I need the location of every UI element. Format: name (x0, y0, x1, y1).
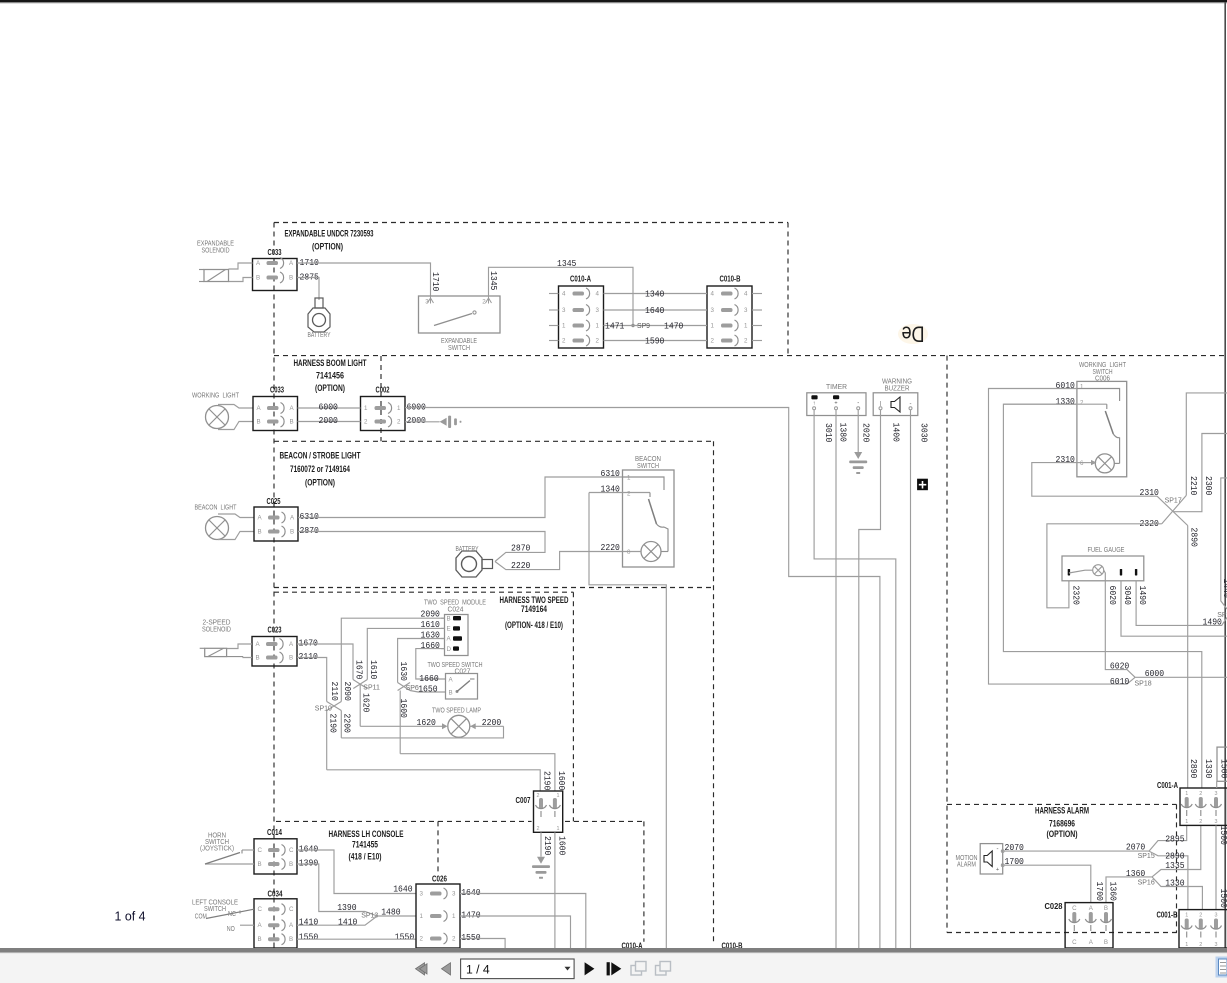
svg-text:1500: 1500 (1218, 759, 1227, 779)
svg-text:2890: 2890 (1188, 759, 1199, 779)
svg-text:6310: 6310 (601, 468, 621, 479)
svg-text:7141456: 7141456 (316, 371, 344, 381)
svg-text:1710: 1710 (430, 272, 441, 292)
svg-text:1380: 1380 (838, 423, 849, 443)
svg-text:EXPANDABLE UNDCR 7230593: EXPANDABLE UNDCR 7230593 (285, 229, 374, 239)
svg-text:1: 1 (420, 913, 424, 920)
svg-text:1440: 1440 (1221, 579, 1227, 599)
svg-text:BUZZER: BUZZER (885, 386, 910, 393)
svg-text:1650: 1650 (418, 684, 438, 695)
svg-text:BEACON / STROBE LIGHT: BEACON / STROBE LIGHT (280, 451, 361, 461)
svg-text:3: 3 (562, 307, 566, 314)
svg-text:EXPANDABLE: EXPANDABLE (197, 241, 234, 248)
svg-text:3: 3 (711, 307, 715, 314)
svg-text:C034: C034 (268, 890, 283, 899)
svg-text:7141455: 7141455 (352, 840, 378, 850)
svg-text:2890: 2890 (1189, 528, 1200, 548)
svg-text:1 / 4: 1 / 4 (466, 963, 490, 977)
svg-text:C: C (258, 906, 263, 913)
svg-text:NO: NO (227, 926, 235, 933)
svg-text:TWO SPEED MODULE: TWO SPEED MODULE (424, 600, 486, 607)
svg-text:C026: C026 (432, 875, 447, 884)
svg-text:1360: 1360 (1126, 868, 1146, 879)
svg-text:2: 2 (452, 936, 456, 943)
svg-text:4: 4 (744, 291, 748, 298)
svg-text:SP11: SP11 (363, 685, 380, 692)
svg-text:1600: 1600 (556, 836, 567, 856)
svg-text:B: B (289, 655, 293, 662)
svg-text:3030: 3030 (919, 423, 930, 443)
svg-text:1600: 1600 (556, 771, 567, 791)
svg-text:SP16: SP16 (1138, 880, 1155, 887)
svg-text:3010: 3010 (823, 423, 834, 443)
svg-text:7160072 or 7149164: 7160072 or 7149164 (290, 464, 351, 474)
svg-text:B: B (257, 419, 261, 426)
svg-text:2190: 2190 (542, 771, 553, 791)
svg-text:B: B (1104, 939, 1108, 946)
svg-text:B: B (256, 275, 260, 282)
svg-text:6020: 6020 (1110, 661, 1130, 672)
svg-text:1335: 1335 (1165, 860, 1185, 871)
svg-text:1470: 1470 (461, 910, 481, 921)
svg-text:B: B (1104, 905, 1108, 912)
svg-text:C024: C024 (448, 607, 464, 614)
svg-text:SP6: SP6 (406, 685, 419, 692)
svg-text:C002: C002 (376, 386, 390, 395)
svg-text:1340: 1340 (645, 289, 665, 300)
svg-text:2200: 2200 (342, 714, 353, 734)
svg-text:HARNESS LH CONSOLE: HARNESS LH CONSOLE (329, 829, 404, 839)
svg-text:1: 1 (711, 323, 715, 330)
svg-text:1670: 1670 (299, 638, 319, 649)
svg-text:1330: 1330 (1203, 759, 1214, 779)
svg-text:C014: C014 (267, 828, 282, 837)
svg-text:2220: 2220 (511, 560, 531, 571)
svg-text:6: 6 (1080, 460, 1084, 467)
svg-text:2870: 2870 (511, 543, 531, 554)
svg-text:HARNESS BOOM LIGHT: HARNESS BOOM LIGHT (294, 358, 367, 368)
svg-text:2: 2 (537, 793, 540, 799)
svg-text:1490: 1490 (1137, 586, 1148, 606)
svg-text:SP15: SP15 (1138, 853, 1155, 860)
svg-text:C001-B: C001-B (1157, 911, 1178, 920)
svg-text:1640: 1640 (299, 844, 319, 855)
svg-text:↑: ↑ (813, 401, 816, 407)
svg-text:1: 1 (557, 793, 560, 799)
svg-text:-: - (997, 847, 999, 853)
svg-text:3: 3 (596, 307, 600, 314)
svg-text:1: 1 (744, 323, 748, 330)
svg-text:B: B (289, 861, 293, 868)
svg-text:3: 3 (1215, 913, 1218, 919)
svg-text:SOLENOID: SOLENOID (202, 248, 230, 255)
svg-text:1490: 1490 (1203, 616, 1223, 627)
svg-text:2190: 2190 (328, 714, 339, 734)
svg-text:1670: 1670 (354, 660, 365, 680)
svg-text:2000: 2000 (407, 415, 427, 426)
svg-text:2: 2 (596, 338, 600, 345)
svg-text:2: 2 (1199, 791, 1202, 797)
svg-text:SP18: SP18 (1135, 681, 1152, 688)
svg-text:B: B (256, 655, 260, 662)
svg-text:1640: 1640 (645, 305, 665, 316)
svg-text:1660: 1660 (419, 673, 439, 684)
svg-text:B: B (258, 529, 262, 536)
svg-text:2: 2 (562, 338, 566, 345)
svg-text:2895: 2895 (1165, 834, 1185, 845)
svg-text:C033: C033 (268, 248, 282, 257)
svg-text:1610: 1610 (368, 660, 379, 680)
svg-text:2: 2 (1199, 913, 1202, 919)
svg-text:1640: 1640 (393, 884, 413, 895)
svg-text:2: 2 (1199, 819, 1202, 825)
svg-text:1550: 1550 (461, 932, 481, 943)
svg-text:2210: 2210 (1188, 476, 1199, 496)
svg-text:4: 4 (562, 291, 566, 298)
svg-text:1410: 1410 (338, 917, 358, 928)
svg-text:C027: C027 (455, 669, 471, 676)
svg-text:2: 2 (420, 936, 424, 943)
svg-text:2: 2 (537, 826, 540, 832)
svg-text:2090: 2090 (342, 682, 353, 702)
svg-text:3040: 3040 (1122, 586, 1133, 606)
svg-text:1360: 1360 (1107, 882, 1118, 902)
svg-text:1410: 1410 (299, 917, 319, 928)
svg-text:1: 1 (1185, 942, 1188, 948)
svg-text:1: 1 (1185, 819, 1188, 825)
svg-text:6020: 6020 (1107, 586, 1118, 606)
svg-text:3: 3 (744, 307, 748, 314)
svg-text:1500: 1500 (1218, 826, 1227, 846)
svg-text:2300: 2300 (1203, 476, 1214, 496)
svg-text:BATTERY: BATTERY (456, 546, 479, 553)
svg-text:1: 1 (1185, 791, 1188, 797)
svg-text:C007: C007 (516, 796, 531, 805)
svg-text:1550: 1550 (299, 932, 319, 943)
svg-text:ALARM: ALARM (957, 862, 976, 869)
svg-text:TIMER: TIMER (826, 384, 847, 391)
svg-text:2220: 2220 (601, 542, 621, 553)
svg-text:BATTERY: BATTERY (308, 332, 331, 339)
svg-text:1: 1 (562, 323, 566, 330)
svg-text:2: 2 (397, 419, 401, 426)
svg-text:2310: 2310 (1140, 487, 1160, 498)
svg-text:3: 3 (1215, 942, 1218, 948)
svg-text:(OPTION): (OPTION) (305, 478, 335, 488)
svg-text:(OPTION): (OPTION) (1047, 829, 1078, 839)
svg-text:6310: 6310 (300, 511, 320, 522)
svg-text:B: B (449, 690, 453, 697)
svg-text:TWO SPEED LAMP: TWO SPEED LAMP (432, 708, 481, 715)
svg-text:2310: 2310 (1056, 454, 1076, 465)
svg-text:2070: 2070 (1126, 842, 1146, 853)
svg-text:1470: 1470 (664, 321, 684, 332)
svg-text:1390: 1390 (337, 902, 357, 913)
svg-text:3: 3 (1215, 819, 1218, 825)
svg-text:(418 / E10): (418 / E10) (349, 852, 382, 862)
svg-text:SP10: SP10 (315, 706, 332, 713)
svg-text:C: C (1072, 939, 1077, 946)
svg-text:De: De (902, 322, 925, 347)
svg-text:SWITCH: SWITCH (448, 345, 470, 352)
svg-text:1 of 4: 1 of 4 (115, 910, 146, 924)
svg-text:C033: C033 (270, 386, 284, 395)
svg-text:2: 2 (1199, 942, 1202, 948)
svg-text:2190: 2190 (542, 836, 553, 856)
svg-text:(OPTION): (OPTION) (315, 383, 345, 393)
svg-text:3: 3 (420, 891, 424, 898)
svg-text:1: 1 (596, 323, 600, 330)
svg-text:B: B (289, 275, 293, 282)
svg-text:COM: COM (195, 914, 207, 921)
svg-text:1590: 1590 (645, 336, 665, 347)
svg-text:1: 1 (452, 913, 456, 920)
svg-text:C010-B: C010-B (720, 275, 741, 284)
svg-text:2: 2 (711, 338, 715, 345)
svg-text:1: 1 (627, 475, 631, 482)
svg-text:3: 3 (1215, 791, 1218, 797)
svg-text:C: C (289, 906, 294, 913)
svg-text:SWITCH: SWITCH (204, 906, 226, 913)
svg-text:D: D (447, 646, 452, 653)
svg-text:2: 2 (744, 338, 748, 345)
svg-text:-: - (857, 401, 859, 407)
svg-text:SP9: SP9 (637, 323, 650, 330)
svg-text:(JOYSTICK): (JOYSTICK) (200, 846, 234, 853)
svg-text:7149164: 7149164 (521, 604, 548, 614)
svg-text:2: 2 (364, 419, 368, 426)
svg-text:1: 1 (1080, 384, 1084, 391)
svg-text:2000: 2000 (319, 415, 339, 426)
svg-text:SOLENOID: SOLENOID (202, 627, 231, 634)
svg-text:B: B (289, 936, 293, 943)
svg-text:2110: 2110 (329, 682, 340, 702)
svg-text:C023: C023 (268, 626, 282, 635)
svg-text:2020: 2020 (861, 423, 872, 443)
svg-text:1471: 1471 (605, 321, 625, 332)
svg-text:7168696: 7168696 (1049, 819, 1075, 829)
svg-text:1330: 1330 (1056, 396, 1076, 407)
svg-text:2: 2 (1080, 400, 1084, 407)
svg-text:(OPTION- 418 / E10): (OPTION- 418 / E10) (505, 620, 563, 630)
svg-text:B: B (290, 419, 294, 426)
svg-text:2110: 2110 (299, 651, 319, 662)
svg-text:2870: 2870 (300, 525, 320, 536)
svg-text:1: 1 (557, 826, 560, 832)
svg-text:B: B (447, 615, 451, 622)
svg-text:WORKING LIGHT: WORKING LIGHT (192, 393, 240, 400)
svg-text:0: 0 (627, 549, 631, 556)
svg-text:B: B (258, 861, 262, 868)
svg-text:1400: 1400 (891, 423, 902, 443)
svg-text:(OPTION): (OPTION) (312, 241, 343, 251)
svg-text:EXPANDABLE: EXPANDABLE (441, 338, 477, 345)
svg-text:C010-A: C010-A (570, 275, 591, 284)
svg-text:WARNING: WARNING (882, 379, 912, 386)
svg-text:C025: C025 (267, 497, 281, 506)
svg-text:C028: C028 (1045, 902, 1064, 911)
svg-text:6010: 6010 (1110, 676, 1130, 687)
svg-text:1700: 1700 (1094, 882, 1105, 902)
svg-text:1: 1 (1185, 913, 1188, 919)
svg-text:BEACON: BEACON (635, 456, 661, 463)
svg-text:3: 3 (452, 891, 456, 898)
svg-text:B: B (258, 936, 262, 943)
svg-text:C: C (289, 847, 294, 854)
svg-text:C001-A: C001-A (1157, 781, 1178, 790)
svg-text:1: 1 (364, 405, 368, 412)
svg-text:|: | (880, 401, 881, 407)
svg-text:SWITCH: SWITCH (637, 463, 659, 470)
svg-text:1600: 1600 (398, 699, 409, 719)
svg-text:B: B (290, 529, 294, 536)
svg-text:4: 4 (596, 291, 600, 298)
svg-text:+: + (996, 867, 999, 873)
svg-text:2: 2 (627, 491, 631, 498)
svg-text:C: C (258, 847, 263, 854)
svg-text:6000: 6000 (319, 402, 339, 413)
svg-text:1550: 1550 (395, 932, 415, 943)
svg-text:1620: 1620 (360, 693, 371, 713)
svg-text:1345: 1345 (488, 271, 499, 291)
svg-text:1330: 1330 (1165, 878, 1185, 889)
svg-text:1640: 1640 (461, 887, 481, 898)
svg-text:2-SPEED: 2-SPEED (203, 620, 231, 627)
svg-text:SP13: SP13 (361, 913, 378, 920)
svg-text:+: + (834, 401, 837, 407)
svg-text:6010: 6010 (1056, 380, 1076, 391)
svg-text:FUEL GAUGE: FUEL GAUGE (1088, 547, 1125, 554)
svg-text:1: 1 (397, 405, 401, 412)
svg-text:E: E (447, 626, 451, 633)
svg-text:4: 4 (711, 291, 715, 298)
svg-text:1630: 1630 (398, 662, 409, 682)
svg-text:1390: 1390 (299, 858, 319, 869)
svg-text:1500: 1500 (1218, 889, 1227, 909)
svg-text:BEACON LIGHT: BEACON LIGHT (195, 505, 238, 512)
svg-text:2320: 2320 (1071, 586, 1082, 606)
svg-text:HARNESS ALARM: HARNESS ALARM (1035, 806, 1089, 816)
svg-text:C: C (1072, 905, 1077, 912)
